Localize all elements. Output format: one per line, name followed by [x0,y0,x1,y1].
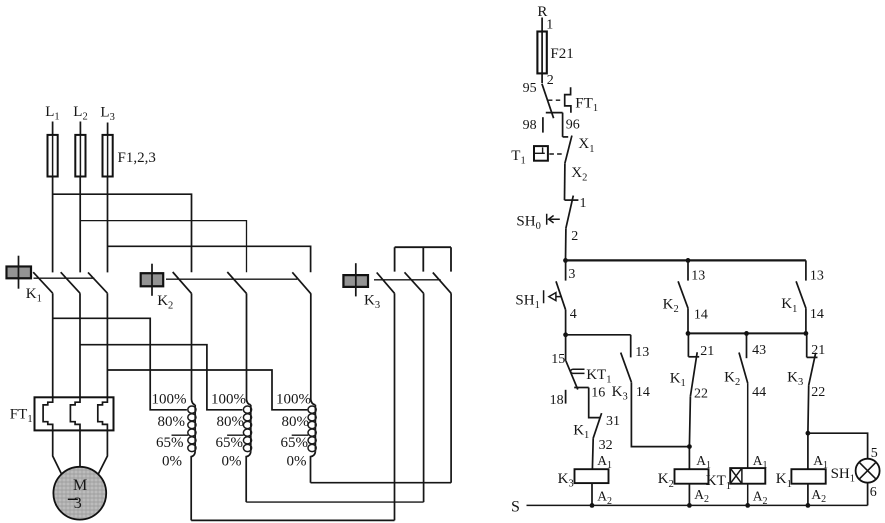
SH1 actuator [544,290,562,303]
wire bus to SH1 [565,260,567,280]
K1 interlock contact blade 31-32 [593,413,601,438]
svg-text:3: 3 [74,495,82,512]
KT1 delay symbol [571,369,585,373]
K2 no contact blade 43-44 [739,353,748,384]
wire K3 pole1 to 0% line1 [394,293,396,520]
coil K1 [791,469,825,484]
signal lamp SH1 [856,459,880,483]
svg-text:96: 96 [566,118,580,133]
wire coil KT1 to S bus [747,484,749,506]
wire FT1 to motor lead3 [98,430,107,474]
motor M1 [53,467,106,520]
terminal 18 stub [565,390,567,404]
K2 aux contact blade 13-14 [678,281,688,308]
K1 contact pole 1 [33,272,53,293]
wire K3 star bus [395,247,451,271]
SH1 start button blade [556,281,566,310]
wire bus corner to K1 aux 13 [805,260,807,280]
wire K3 aux to K2 coil branch [631,382,689,446]
fuse F1 [48,135,58,177]
contactor coil actuator K3 [343,275,368,287]
K2 contact pole 3 [292,272,311,293]
K1 mechanical link [34,277,95,279]
svg-text:1: 1 [580,196,587,211]
FT1 heater element 3 [98,397,108,430]
fuse F21 [537,32,546,74]
svg-text:65%: 65% [216,435,244,451]
svg-text:80%: 80% [158,414,186,430]
wire L2 branch to K2 contact 2 [80,221,246,273]
wire L2 to K1 contact [79,177,81,273]
svg-text:31: 31 [606,414,620,429]
wire K1 aux to mid bus [805,308,807,333]
FT1 trip contact blade 95-96 [542,84,554,119]
svg-text:100%: 100% [276,391,311,407]
control bus node 3 [563,258,568,263]
contactor coil actuator K2 [141,273,164,286]
K3 mechanical link [374,279,441,281]
wire T2 0% to K3 pole2 [246,501,423,503]
KT1 contact bar 16 [574,387,589,389]
svg-text:80%: 80% [282,414,310,430]
SH0 fixed contact bar terminal 1 [565,199,579,201]
K2 contact pole 1 [173,272,192,293]
fuse F2 [75,135,85,177]
svg-text:65%: 65% [281,435,309,451]
wire coil K1 to S bus [807,484,809,506]
svg-text:S: S [511,498,520,515]
wire K2 aux to mid bus [687,308,689,333]
control top bus [566,259,806,261]
autotransformer T2 winding [247,293,251,404]
wire node to K3 aux contact [566,334,631,336]
junction dot K2 coil branch [687,444,692,449]
svg-text:100%: 100% [152,391,187,407]
S bus [527,504,868,506]
wire 16 step to contact 31 [589,388,601,418]
wire motor lead1 to autotransformer1 100% tap [53,318,187,410]
svg-text:32: 32 [599,438,613,453]
wire R to fuse F21 [541,18,543,84]
FT1 trip device symbol [565,87,571,113]
svg-text:22: 22 [811,385,825,400]
wire FT1 to motor lead2 [79,430,81,466]
wire 44 to coil KT1 [747,383,749,468]
FT1 trip dashed link [548,99,563,101]
svg-text:14: 14 [636,385,650,400]
autotransformer T3 winding [311,293,316,404]
svg-text:2: 2 [547,73,554,88]
T1 65% tap stub [172,434,189,436]
wire lamp to S bus [867,483,869,506]
wire mid bus to K3 nc contact 21 [806,333,808,357]
wire mid bus to K1 nc contact 21 [687,333,689,356]
wire 22 to lamp branch [807,385,810,469]
svg-text:6: 6 [870,485,877,500]
junction dot lamp branch [806,431,811,436]
wire L3 branch to K2 contact 3 [108,246,311,272]
K3 aux contact blade [621,353,632,383]
svg-text:0%: 0% [222,453,242,469]
wire K1 pole1 to FT1 [52,293,54,397]
svg-text:M: M [73,477,87,494]
svg-text:21: 21 [811,343,825,358]
thermal overload FT1 box [35,397,114,430]
svg-text:43: 43 [752,343,766,358]
wire node15 down [565,335,567,361]
svg-text:3: 3 [568,267,575,282]
coil K2 [675,469,709,484]
wire 96 leg [562,113,564,137]
wire SH1 to node 15 [565,310,567,335]
wire K3 pole2 to 0% line2 [423,293,425,502]
K3 nc contact blade 21-22 [809,353,816,386]
wire lamp branch [808,433,868,459]
K3 contact pole 3 [433,273,451,294]
svg-text:14: 14 [694,307,708,322]
K1 nc contact blade 21-22 [690,352,697,396]
svg-text:15: 15 [551,352,565,367]
svg-text:13: 13 [691,268,705,283]
svg-text:14: 14 [810,307,824,322]
transformer T1 box [534,146,548,161]
wire coil K3 to S bus [591,483,593,505]
SH0 actuator [547,214,560,225]
wire T3 0% to K3 pole3 [311,482,452,484]
wire motor lead3 to autotransformer3 100% tap [107,370,307,410]
svg-text:13: 13 [635,345,649,360]
wire SH0 to control bus [565,228,567,260]
wire L1 to K1 contact [52,177,54,273]
svg-text:F21: F21 [550,46,573,62]
junction dot node 4-13 [563,332,568,337]
wire bus to K2 aux 13 [687,260,689,280]
K1 contact pole 2 [61,272,80,293]
K2 contact pole 2 [227,272,246,293]
wire mid bus to K2 no contact 43 [746,333,748,358]
FT1 heater element 1 [43,397,53,430]
wire X2 to button SH0 [564,163,566,200]
wire K1 pole2 to FT1 [79,293,81,397]
svg-text:0%: 0% [162,453,182,469]
K3 contact pole 2 [405,272,424,293]
SH0 stop button blade [566,196,573,229]
time relay coil KT1 [730,468,765,484]
FT1 heater element 2 [70,397,80,430]
mid bus [688,332,806,334]
K1 contact pole 3 [88,272,107,293]
svg-text:21: 21 [700,344,714,359]
wire FT1 to motor lead1 [53,430,62,474]
wire coil K2 to S bus [688,484,690,506]
connector X1-X2 blade [565,136,572,164]
terminal 98 stub [542,117,544,132]
svg-text:18: 18 [550,393,564,408]
svg-text:98: 98 [523,118,537,133]
KT1 timed contact blade [566,361,578,390]
wire K1 pole3 to FT1 [106,293,108,397]
T3 65% tap stub [292,434,309,436]
K3 contact pole 1 [377,273,395,294]
svg-text:44: 44 [752,385,766,400]
svg-text:13: 13 [810,268,824,283]
svg-text:65%: 65% [156,435,184,451]
T1 dashed link [549,153,563,155]
junction dot bus-K2aux [686,258,691,263]
FT1 contact bar [546,112,563,114]
K3 nc contact foot 21 [807,356,818,358]
svg-text:22: 22 [694,387,708,402]
T2 65% tap stub [227,434,244,436]
svg-text:F1,2,3: F1,2,3 [118,150,156,166]
wire L1 stub [52,122,54,135]
wire 22 to coil K2 [689,396,690,469]
coil K3 [575,469,609,483]
svg-text:16: 16 [591,385,605,400]
svg-text:80%: 80% [217,414,245,430]
K1 nc contact foot 21 [688,356,699,358]
connector X1 foot [563,136,569,138]
fuse F3 [103,135,113,177]
svg-text:100%: 100% [211,391,246,407]
svg-text:0%: 0% [287,453,307,469]
svg-text:4: 4 [570,307,577,322]
svg-text:95: 95 [523,81,537,96]
K3 aux contact 13-14 upper [630,335,632,358]
K2 mechanical link [166,278,297,280]
autotransformer T1 winding [192,293,196,404]
wire T1 0% to K3 pole1 [191,519,394,521]
wire motor lead2 to autotransformer2 100% tap [80,345,242,410]
K1 aux contact blade 13-14 [796,281,806,308]
svg-text:1: 1 [546,18,553,33]
wire L3 stub [107,123,109,135]
svg-text:2: 2 [571,229,578,244]
wire L3 to K1 contact [107,177,109,273]
wire K3 pole3 to 0% line3 [450,293,452,482]
contactor coil actuator K1 [7,267,32,279]
wire L1 branch to K2 contact 1 [53,194,192,272]
wire 32 to coil K3 [591,438,594,469]
wire L2 stub [79,122,81,135]
